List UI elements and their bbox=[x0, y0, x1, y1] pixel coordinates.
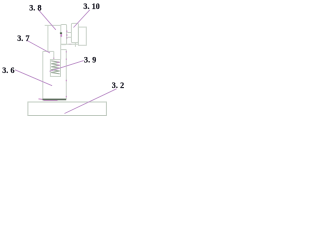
purple dash at column bottom left bbox=[39, 98, 43, 101]
column top jog horizontal bbox=[43, 50, 54, 52]
leader 3.6 bbox=[15, 70, 52, 86]
cylinder body bbox=[71, 23, 78, 42]
coupling line lower bbox=[67, 36, 71, 38]
bracket vertical bbox=[47, 25, 49, 51]
piston rod stub bbox=[74, 42, 76, 46]
purple ticks on right vertical bbox=[65, 51, 67, 97]
right box bbox=[78, 27, 86, 45]
leader 3.7 bbox=[26, 40, 50, 53]
rod guide vertical bbox=[60, 44, 62, 59]
leader 3.10 bbox=[74, 10, 90, 28]
spring housing bbox=[50, 60, 60, 77]
base rect bbox=[28, 102, 107, 116]
svg-text:3. 2: 3. 2 bbox=[112, 81, 124, 90]
column right vertical bbox=[65, 50, 67, 100]
purple flecks on spring bbox=[54, 58, 60, 66]
shaft purple mark bbox=[60, 34, 62, 37]
leader 3.2 bbox=[65, 89, 117, 114]
coupling line upper bbox=[67, 32, 71, 34]
leader 3.8 bbox=[39, 10, 56, 30]
plate line lower bbox=[61, 49, 67, 51]
svg-text:3. 10: 3. 10 bbox=[83, 2, 100, 11]
svg-text:3. 8: 3. 8 bbox=[29, 4, 41, 13]
bracket arm top bbox=[45, 24, 61, 26]
shaft hatch right edge bbox=[66, 31, 68, 39]
purple dash on plate bbox=[69, 43, 72, 45]
spring bbox=[51, 61, 60, 74]
svg-text:3. 6: 3. 6 bbox=[2, 66, 14, 75]
column left vertical bbox=[42, 51, 44, 99]
svg-text:3. 7: 3. 7 bbox=[17, 34, 29, 43]
shaft dark mark bbox=[60, 32, 62, 34]
jog vertical bbox=[53, 51, 55, 59]
motor body bbox=[61, 25, 67, 45]
purple underline below dark line bbox=[44, 100, 58, 102]
plate line upper bbox=[61, 43, 79, 45]
svg-text:3. 9: 3. 9 bbox=[84, 56, 96, 65]
leader 3.9 bbox=[50, 61, 84, 72]
column bottom dark line bbox=[43, 98, 67, 100]
